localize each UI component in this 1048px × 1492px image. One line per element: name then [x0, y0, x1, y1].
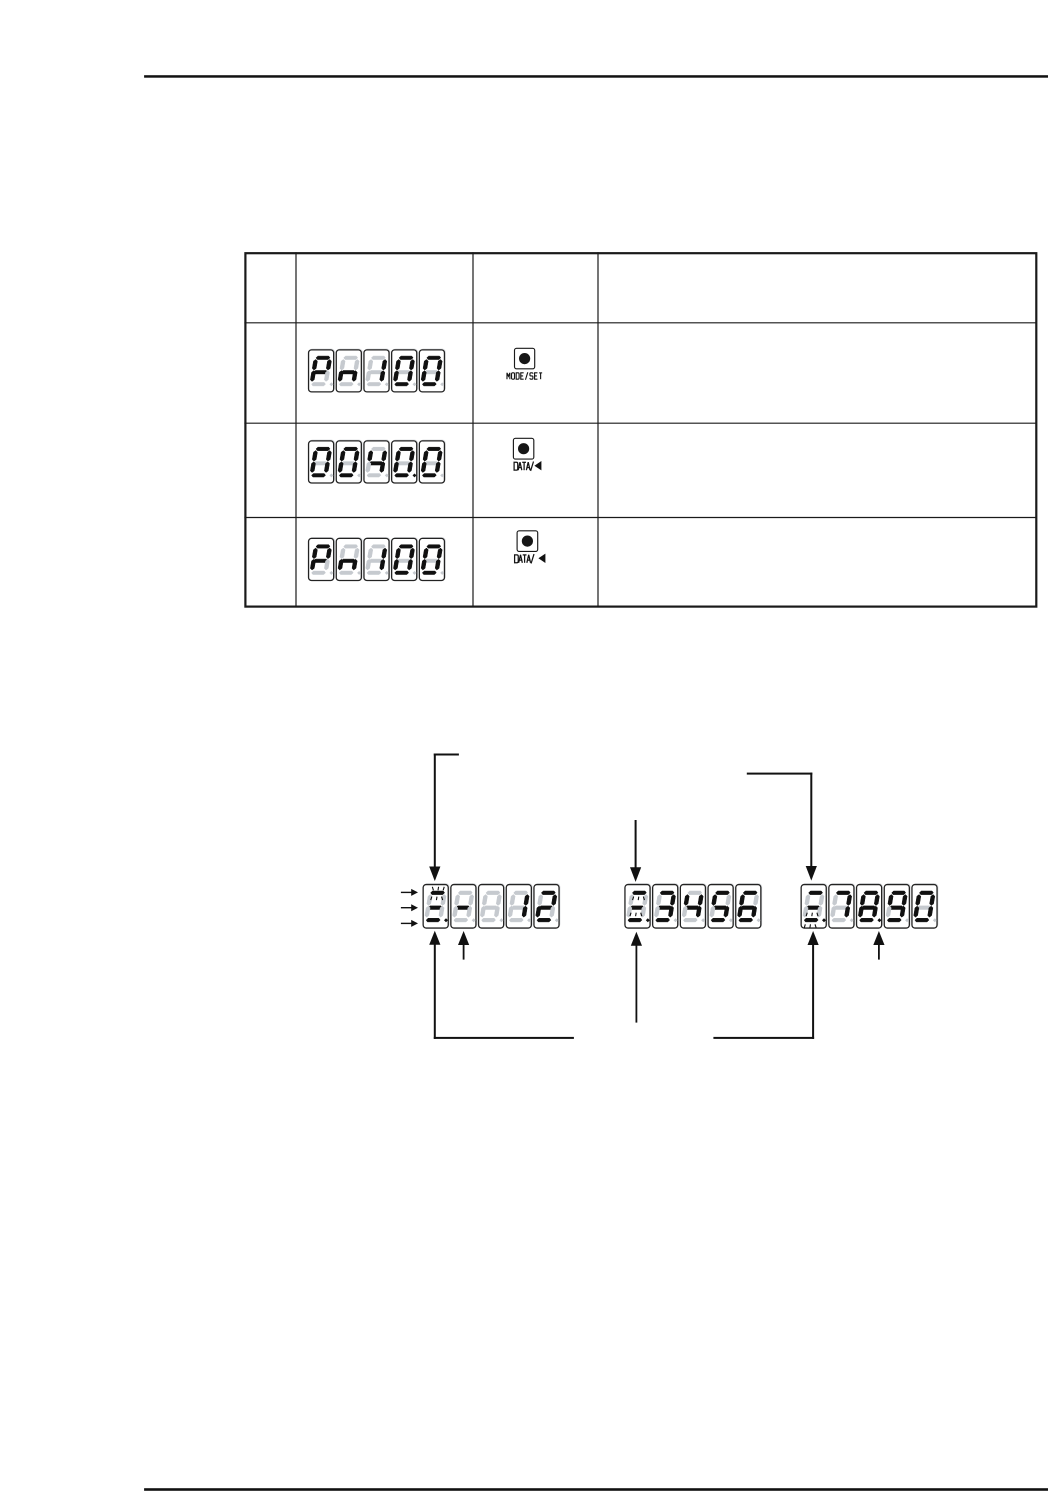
down arrowhead group1 [429, 867, 440, 882]
up arrow group3 digit1 with bottom elbow [808, 931, 819, 945]
display group2 3456 blinking [625, 884, 762, 928]
down arrowhead group3 [806, 866, 817, 881]
up arrow group2 digit1 [631, 932, 642, 946]
display row2 0040.0 [309, 440, 446, 483]
left small arrows [401, 892, 413, 893]
bottom rule [144, 1488, 1048, 1491]
up arrow group1 digit2 [458, 931, 469, 945]
display row1 Pn100 [309, 349, 446, 392]
down arrow group2 [635, 820, 637, 868]
button MODE/SET [507, 348, 542, 379]
up arrow group3 decimal point [873, 931, 884, 945]
display row3 Pn100 [309, 538, 446, 581]
top-right elbow connector [747, 773, 813, 775]
button DATA row2 [513, 438, 541, 471]
display group1 -12 blinking [423, 884, 560, 928]
display group3 7890 blinking [801, 884, 938, 928]
top-left elbow connector [434, 754, 459, 756]
button DATA row3 [515, 531, 546, 564]
top rule [144, 75, 1048, 78]
up arrow group1 digit1 with bottom elbow [429, 931, 440, 945]
table [244, 252, 1036, 606]
